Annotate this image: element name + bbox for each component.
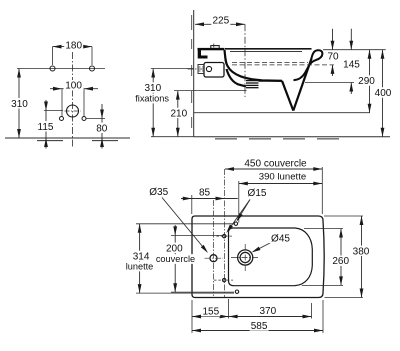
svg-text:260: 260 — [332, 256, 349, 267]
svg-text:380: 380 — [353, 246, 370, 257]
svg-text:370: 370 — [259, 306, 276, 317]
svg-text:290: 290 — [358, 76, 375, 87]
svg-text:450 couvercle: 450 couvercle — [244, 158, 307, 169]
svg-text:100: 100 — [65, 81, 82, 92]
svg-text:115: 115 — [38, 122, 54, 133]
svg-text:Ø35: Ø35 — [149, 187, 168, 198]
svg-text:fixations: fixations — [135, 94, 169, 104]
svg-text:210: 210 — [170, 108, 187, 119]
svg-text:585: 585 — [251, 321, 268, 332]
svg-text:couvercle: couvercle — [156, 254, 195, 264]
svg-text:310: 310 — [11, 99, 28, 110]
svg-text:225: 225 — [212, 15, 229, 26]
svg-text:Ø15: Ø15 — [248, 188, 267, 199]
svg-text:180: 180 — [65, 40, 82, 51]
svg-text:lunette: lunette — [126, 262, 154, 272]
svg-text:400: 400 — [375, 88, 392, 99]
svg-text:155: 155 — [202, 307, 219, 318]
svg-text:80: 80 — [96, 123, 108, 134]
svg-text:310: 310 — [144, 83, 161, 94]
svg-text:70: 70 — [327, 52, 339, 63]
svg-text:390 lunette: 390 lunette — [259, 171, 306, 182]
svg-text:85: 85 — [199, 188, 211, 199]
svg-text:Ø45: Ø45 — [271, 234, 290, 245]
svg-text:200: 200 — [166, 243, 183, 254]
svg-text:145: 145 — [343, 59, 360, 70]
